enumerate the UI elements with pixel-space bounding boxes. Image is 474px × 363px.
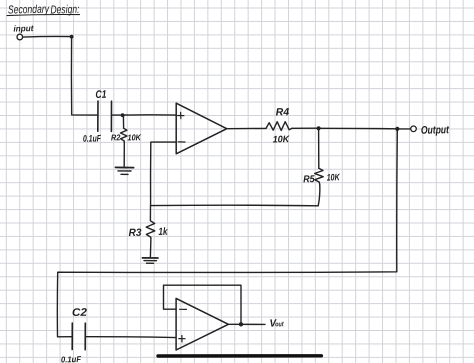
- input label: [13, 23, 34, 33]
- node E junction: [395, 127, 399, 131]
- U2 minus marker: [180, 308, 187, 310]
- value 0.1uF: [83, 133, 101, 144]
- svg-text:C1: C1: [95, 89, 106, 101]
- wire C1 to node B: [112, 114, 123, 116]
- feedback wire U2 output to minus input: [164, 285, 242, 324]
- svg-text:0.1uF: 0.1uF: [61, 354, 82, 363]
- value 0.1uF (C2): [61, 354, 82, 363]
- wire node B to op-amp U1 plus input: [123, 114, 176, 116]
- label R4: [276, 106, 290, 118]
- node D junction: [317, 126, 321, 130]
- node C tee: [151, 204, 318, 207]
- svg-text:R4: R4: [276, 106, 290, 118]
- node F junction: [239, 322, 243, 326]
- op-amp U2: [176, 298, 228, 350]
- op-amp U1: [176, 103, 227, 154]
- svg-text:input: input: [13, 23, 34, 33]
- wire node A down to C1: [71, 37, 97, 115]
- label Output: [421, 124, 450, 137]
- U2 plus marker: [179, 336, 185, 342]
- svg-text:R2: R2: [111, 132, 121, 142]
- svg-text:R5: R5: [303, 174, 315, 185]
- svg-text:Output: Output: [421, 124, 450, 137]
- heavy baseline mark: [158, 354, 321, 358]
- wire node E down and across to C2: [57, 129, 397, 337]
- svg-text:out: out: [275, 321, 284, 328]
- resistor R5: [315, 168, 324, 185]
- title "Secondary Design:": [8, 4, 80, 17]
- wire U2 output: [228, 323, 265, 325]
- wire R3 to ground: [149, 238, 152, 257]
- label R5: [303, 174, 315, 185]
- resistor R3: [146, 206, 155, 238]
- label R3: [128, 227, 141, 239]
- label C1: [95, 89, 106, 101]
- svg-text:10K: 10K: [327, 172, 341, 183]
- output terminal: [411, 126, 417, 132]
- resistor R2: [121, 115, 128, 142]
- svg-text:0.1uF: 0.1uF: [83, 133, 101, 144]
- value 1k: [158, 226, 168, 238]
- svg-text:R3: R3: [128, 227, 141, 239]
- title underline: [7, 15, 80, 16]
- wire U1 minus input to node C: [151, 142, 177, 206]
- value 10K (R5): [327, 172, 341, 183]
- node A junction: [70, 35, 74, 39]
- wire C2 to op-amp U2 plus input: [85, 336, 176, 339]
- value 10K: [127, 132, 141, 142]
- ground (R3): [142, 258, 158, 263]
- resistor R4: [266, 122, 292, 131]
- label Vout: [269, 317, 284, 329]
- svg-text:C2: C2: [72, 307, 87, 319]
- input terminal: [17, 34, 23, 40]
- wire R2 to ground: [123, 142, 125, 167]
- wire U1 output to R4: [227, 127, 266, 129]
- ground (R2): [116, 167, 134, 174]
- wire node D to node E: [319, 127, 397, 130]
- wire node E to output terminal: [397, 128, 410, 130]
- label R2: [111, 132, 121, 142]
- wire R4 to node D: [292, 127, 318, 129]
- capacitor C1: [98, 101, 112, 131]
- wire node D to R5: [318, 128, 320, 168]
- svg-text:1k: 1k: [158, 226, 168, 238]
- label C2: [72, 307, 87, 319]
- U1 minus marker: [178, 141, 185, 143]
- wire input to node A: [23, 35, 71, 38]
- capacitor C2: [72, 323, 85, 350]
- svg-text:10K: 10K: [127, 132, 141, 142]
- wire R5 to node C rail: [318, 185, 320, 206]
- value 10K (R4): [273, 134, 291, 145]
- node B junction: [121, 113, 125, 117]
- U1 plus marker: [178, 112, 184, 118]
- svg-text:10K: 10K: [273, 134, 291, 145]
